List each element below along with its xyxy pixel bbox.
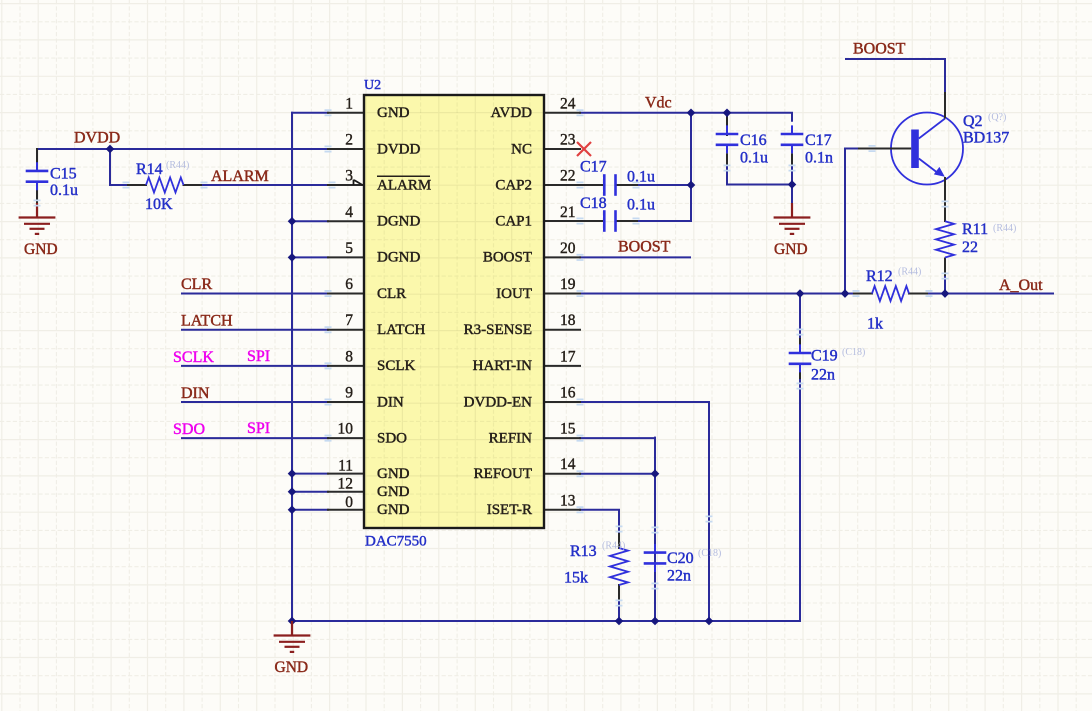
resistor R12 — [872, 286, 909, 301]
svg-text:R13: R13 — [570, 543, 597, 560]
junction bus pin11 — [288, 469, 297, 478]
ALARM overline — [377, 175, 430, 177]
ground GND bottom — [274, 621, 311, 652]
svg-text:C16: C16 — [740, 132, 767, 149]
junction bus pin4 — [288, 217, 297, 226]
wire REFIN pin15 down — [580, 438, 655, 621]
R13 leads — [618, 534, 620, 599]
svg-text:SDO: SDO — [173, 421, 205, 438]
svg-text:AVDD: AVDD — [491, 105, 533, 121]
no-connect X on pin 23 — [577, 142, 591, 156]
svg-text:3: 3 — [345, 168, 353, 185]
svg-text:12: 12 — [338, 476, 354, 493]
junction bus R13 — [615, 617, 624, 626]
svg-text:10: 10 — [338, 421, 354, 438]
svg-text:SCLK: SCLK — [173, 349, 214, 366]
svg-text:GND: GND — [377, 484, 410, 500]
capacitor C15 — [26, 171, 49, 182]
svg-text:DIN: DIN — [181, 385, 210, 402]
svg-text:8: 8 — [345, 348, 353, 365]
svg-text:(R44): (R44) — [166, 160, 189, 171]
svg-text:ALARM: ALARM — [211, 168, 269, 185]
svg-text:REFOUT: REFOUT — [474, 466, 532, 482]
junction bus pin5 — [288, 253, 297, 262]
wire ISET-R pin13 down to R13 — [580, 510, 619, 534]
wire DVDD C15 to pin2 — [37, 148, 328, 150]
wire LATCH — [182, 329, 328, 331]
svg-text:2: 2 — [345, 131, 353, 148]
svg-text:SDO: SDO — [377, 430, 407, 446]
svg-text:GND: GND — [377, 502, 410, 518]
ground GND right — [774, 203, 811, 234]
svg-text:14: 14 — [560, 456, 576, 473]
svg-text:(R44): (R44) — [993, 223, 1016, 234]
svg-text:9: 9 — [345, 385, 353, 402]
wire DVDD junction down to R14 — [110, 149, 128, 185]
wire C16 C17 bottom rail — [727, 165, 792, 185]
svg-text:0.1u: 0.1u — [740, 150, 768, 167]
svg-text:C18: C18 — [580, 195, 607, 212]
svg-text:SPI: SPI — [247, 420, 270, 437]
wire rail to GND stem — [791, 185, 793, 204]
svg-text:DVDD: DVDD — [74, 130, 120, 147]
wire bus to pin11 — [292, 473, 328, 475]
svg-text:C17: C17 — [805, 132, 832, 149]
cap C16 top lead — [726, 113, 728, 135]
svg-text:22n: 22n — [667, 568, 691, 585]
svg-text:SCLK: SCLK — [377, 358, 416, 374]
junction Vdc 2 — [723, 109, 732, 118]
svg-text:GND: GND — [275, 659, 309, 676]
svg-text:ALARM: ALARM — [377, 177, 431, 193]
svg-text:0: 0 — [345, 494, 353, 511]
svg-text:GND: GND — [377, 105, 410, 121]
wire CAP1 C18 to vertical — [637, 220, 691, 222]
svg-text:22: 22 — [560, 168, 576, 185]
wire Vdc rail pin24 to C17b — [580, 113, 792, 121]
junction Vdc 1 — [687, 109, 696, 118]
svg-text:11: 11 — [338, 458, 353, 475]
capacitor C16 — [716, 134, 739, 145]
svg-text:DGND: DGND — [377, 214, 420, 230]
junction bottom GND — [288, 617, 297, 626]
wire GND left vertical bus — [291, 113, 293, 621]
svg-text:0.1u: 0.1u — [627, 197, 655, 214]
resistor R13 — [610, 548, 628, 585]
svg-text:Vdc: Vdc — [645, 95, 672, 112]
wire Vdc vertical to CAP2/CAP1 — [690, 113, 692, 221]
svg-text:(C18): (C18) — [842, 347, 865, 358]
junction bus pin12 — [288, 487, 297, 496]
op-amp U2 DAC7550 IC body — [364, 95, 544, 528]
wire DVDD-EN pin16 down — [580, 402, 709, 621]
svg-text:C19: C19 — [811, 348, 838, 365]
wire CLR — [182, 293, 328, 295]
svg-text:21: 21 — [560, 204, 576, 221]
svg-text:CLR: CLR — [181, 276, 212, 293]
svg-text:GND: GND — [24, 241, 58, 258]
svg-text:7: 7 — [345, 312, 353, 329]
svg-text:C20: C20 — [667, 550, 694, 567]
svg-text:LATCH: LATCH — [181, 313, 233, 330]
wire SDO — [182, 437, 328, 439]
wire SCLK — [182, 365, 328, 367]
svg-text:NC: NC — [511, 141, 532, 157]
wire bus to pin0 — [292, 509, 328, 511]
svg-text:C15: C15 — [50, 166, 77, 183]
svg-text:1: 1 — [345, 95, 353, 112]
svg-text:1k: 1k — [867, 316, 883, 333]
svg-text:0.1u: 0.1u — [627, 169, 655, 186]
svg-text:22n: 22n — [811, 367, 835, 384]
svg-text:24: 24 — [560, 95, 576, 112]
svg-text:17: 17 — [560, 348, 576, 365]
svg-text:IOUT: IOUT — [496, 286, 532, 302]
svg-text:16: 16 — [560, 385, 576, 402]
capacitor C17 0.1n — [781, 134, 804, 145]
wire R11 to IOUT junction — [944, 277, 946, 294]
wire Q2 base from IOUT — [845, 149, 858, 294]
wire pin1 to bus — [292, 112, 328, 114]
pin 21 stub to C18 — [544, 220, 603, 222]
wire CAP2 C17 to vertical — [637, 184, 691, 186]
svg-text:R12: R12 — [866, 268, 893, 285]
junction IOUT Q2 base — [841, 289, 850, 298]
svg-text:20: 20 — [560, 240, 576, 257]
R12 leads — [854, 293, 927, 295]
svg-text:C17: C17 — [580, 159, 607, 176]
wire R13 to bottom bus — [618, 599, 620, 621]
svg-text:15k: 15k — [564, 570, 588, 587]
svg-text:10K: 10K — [145, 196, 173, 213]
svg-text:4: 4 — [345, 204, 353, 221]
svg-text:DIN: DIN — [377, 394, 404, 410]
junction CAP2 vertical — [687, 181, 696, 190]
svg-text:(C18): (C18) — [698, 548, 721, 559]
R14 leads — [128, 184, 201, 186]
wire R12 to A_Out — [927, 293, 1053, 295]
svg-text:(R44): (R44) — [898, 267, 921, 278]
wire IOUT pin19 to R12 — [580, 293, 854, 295]
svg-text:R3-SENSE: R3-SENSE — [464, 322, 532, 338]
svg-text:6: 6 — [345, 276, 353, 293]
resistor R11 — [936, 221, 954, 257]
wire REFOUT pin14 — [580, 473, 655, 475]
svg-text:23: 23 — [560, 131, 576, 148]
svg-text:19: 19 — [560, 276, 576, 293]
svg-text:(R44): (R44) — [602, 541, 625, 552]
junction bus pin16 — [705, 617, 714, 626]
ground GND at C15 — [19, 203, 56, 234]
svg-text:CAP1: CAP1 — [495, 214, 532, 230]
svg-text:R11: R11 — [962, 221, 988, 238]
junction IOUT C19 — [796, 289, 805, 298]
wire C19 to bottom bus — [799, 378, 801, 621]
svg-text:CLR: CLR — [377, 286, 406, 302]
svg-text:22: 22 — [962, 239, 978, 256]
svg-text:0.1u: 0.1u — [50, 182, 78, 199]
wire DIN — [182, 401, 328, 403]
R11 bottom lead — [944, 258, 946, 278]
svg-text:REFIN: REFIN — [489, 430, 533, 446]
wire C20 leads — [654, 438, 656, 539]
svg-text:CAP2: CAP2 — [495, 177, 532, 193]
svg-text:BD137: BD137 — [963, 130, 1009, 147]
capacitor C18 0.1u — [604, 210, 615, 232]
svg-text:(Q?): (Q?) — [988, 112, 1006, 123]
svg-text:15: 15 — [560, 421, 576, 438]
wire IOUT down to C19 — [799, 294, 801, 339]
C15 lead + leads to GND — [36, 149, 38, 203]
svg-text:U2: U2 — [364, 78, 381, 93]
C19 leads black — [799, 339, 801, 378]
Q2 emitter lead to R11 — [944, 178, 946, 221]
svg-text:A_Out: A_Out — [999, 277, 1043, 294]
pin 22 stub to C17 — [544, 184, 603, 186]
svg-text:BOOST: BOOST — [618, 239, 671, 256]
resistor R14 — [146, 178, 184, 193]
wire BOOST pin20 — [580, 256, 690, 258]
svg-text:ISET-R: ISET-R — [487, 502, 532, 518]
svg-text:R14: R14 — [136, 161, 163, 178]
svg-text:DVDD-EN: DVDD-EN — [464, 394, 532, 410]
U2 pin stubs left side — [328, 112, 364, 114]
connection markers — [325, 110, 332, 115]
svg-text:GND: GND — [774, 241, 808, 258]
junction pin14 REFOUT — [651, 469, 660, 478]
svg-text:SPI: SPI — [247, 348, 270, 365]
transistor Q2 BD137 — [891, 113, 963, 185]
svg-text:DVDD: DVDD — [377, 141, 420, 157]
pin 3 input marker — [354, 180, 363, 186]
svg-text:LATCH: LATCH — [377, 322, 426, 338]
svg-text:BOOST: BOOST — [853, 41, 906, 58]
junction IOUT R11 — [941, 289, 950, 298]
wire BOOST to Q2 collector — [846, 59, 945, 92]
svg-text:GND: GND — [377, 466, 410, 482]
wire bus to pin5 — [292, 256, 328, 258]
U2 pin stubs right side — [544, 112, 580, 114]
wire bus to pin12 — [292, 491, 328, 493]
junction DVDD — [106, 145, 115, 154]
svg-text:DAC7550: DAC7550 — [365, 534, 427, 550]
svg-text:Q2: Q2 — [963, 113, 983, 130]
wire bottom GND bus — [292, 620, 800, 622]
svg-text:18: 18 — [560, 312, 576, 329]
C17b bottom lead — [791, 153, 793, 166]
junction bus C20 — [651, 617, 660, 626]
svg-text:0.1n: 0.1n — [805, 150, 833, 167]
svg-text:13: 13 — [560, 492, 576, 509]
junction bus pin0 — [288, 506, 297, 515]
svg-text:5: 5 — [345, 240, 353, 257]
svg-text:HART-IN: HART-IN — [473, 358, 533, 374]
capacitor C20 — [644, 553, 667, 564]
wire ALARM R14 to pin3 — [201, 184, 328, 186]
junction C17b rail — [788, 180, 797, 189]
capacitor C19 — [789, 353, 812, 364]
svg-text:BOOST: BOOST — [483, 250, 532, 266]
svg-text:DGND: DGND — [377, 250, 420, 266]
wire bus to pin4 — [292, 220, 328, 222]
capacitor C17 0.1u — [604, 174, 615, 196]
